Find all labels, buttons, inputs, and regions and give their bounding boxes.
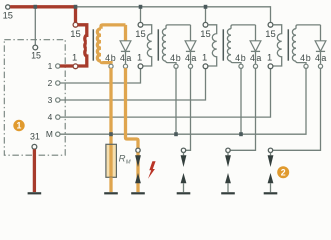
coil N3 high voltage diode xyxy=(255,25,257,41)
junction: M line / RM branch xyxy=(109,132,113,136)
svg-text:1: 1 xyxy=(17,121,22,131)
coil N2 high voltage diode xyxy=(190,25,192,41)
svg-text:4b: 4b xyxy=(300,53,311,63)
coil N3 secondary winding xyxy=(231,25,256,29)
wire: drop to coil 3 terminal 15 xyxy=(205,7,207,23)
spark gap 3 lower electrode arrow xyxy=(225,173,231,183)
junction: coil 3 4b / M line xyxy=(239,132,243,136)
svg-text:15: 15 xyxy=(135,28,145,39)
wire: spark gap 3 electrodes xyxy=(227,153,229,156)
svg-text:3: 3 xyxy=(48,95,53,105)
callout badge 1 xyxy=(13,120,24,131)
svg-text:4: 4 xyxy=(48,112,53,122)
ignition coil N3: terminal 15 xyxy=(203,22,208,27)
svg-text:1: 1 xyxy=(48,61,53,71)
wire: red drop into coil 1 terminal 15 xyxy=(74,6,77,23)
spark gap 2 lower electrode arrow xyxy=(181,173,187,183)
coil N4 primary winding xyxy=(273,25,282,66)
svg-text:1: 1 xyxy=(267,52,272,63)
wire: coil 1 terminal 4b to measuring line (orange) xyxy=(109,68,112,134)
ground: spark gap 2 xyxy=(177,192,191,194)
svg-text:4b: 4b xyxy=(105,53,116,63)
coil N4 high voltage diode xyxy=(320,25,322,41)
svg-text:1: 1 xyxy=(202,52,207,63)
spark gap 3 terminal xyxy=(226,148,230,152)
coil N2 primary winding xyxy=(143,25,152,66)
ignition coil N1: terminal 15 xyxy=(73,22,78,27)
ignition coil N4: terminal 15 xyxy=(268,22,273,27)
wire: terminal 31 to ground (red) xyxy=(33,149,36,192)
wire: terminal 15 supply rail (highlighted red) xyxy=(10,5,75,8)
svg-text:2: 2 xyxy=(48,78,53,88)
coil N3 core xyxy=(222,29,224,60)
coil N3 primary winding xyxy=(208,25,217,66)
spark gap 4 terminal xyxy=(268,148,272,152)
svg-text:2: 2 xyxy=(281,167,286,177)
wire: coil 3 terminal 4a to spark gap 3 xyxy=(230,68,255,150)
coil N1 core xyxy=(92,29,94,60)
spark gap 2 terminal xyxy=(181,148,185,152)
junction: coil 2 4b / M line xyxy=(174,132,178,136)
coil N4 core xyxy=(287,29,289,60)
spark gap 4 lower electrode arrow xyxy=(268,173,274,183)
svg-text:4a: 4a xyxy=(250,53,263,63)
spark gap 3 upper electrode arrow xyxy=(225,155,231,167)
spark gap 1 lower electrode arrow xyxy=(135,173,141,183)
wire: coil 1 terminal 4a to spark gap 1 (orange) xyxy=(126,68,139,148)
control unit J... (dash-dot enclosure) xyxy=(4,40,65,156)
svg-text:4a: 4a xyxy=(315,53,328,63)
svg-text:1: 1 xyxy=(137,52,142,63)
control unit terminal 15 xyxy=(33,45,38,50)
wire: spark gap 1 electrode (orange) xyxy=(136,153,139,193)
svg-text:4b: 4b xyxy=(170,53,181,63)
wire: spark gap 4 electrodes xyxy=(270,153,272,156)
coil N1 primary winding xyxy=(78,25,87,66)
svg-text:M: M xyxy=(46,129,53,139)
svg-text:M: M xyxy=(126,160,131,166)
callout badge 2 xyxy=(277,166,289,178)
wire: pin 4 to coil 4 terminal 1 xyxy=(60,69,271,117)
svg-text:15: 15 xyxy=(3,10,13,20)
spark gap 1 upper electrode arrow xyxy=(135,155,141,167)
wire: rail corner drop to coil 4 terminal 15 xyxy=(270,6,272,22)
wire: pin 1 to coil 1 terminal 1 (red) xyxy=(60,64,73,67)
svg-text:15: 15 xyxy=(70,28,80,39)
svg-text:1: 1 xyxy=(72,52,77,63)
wire: pin 3 to coil 3 terminal 1 xyxy=(60,69,206,100)
wire: drop to coil 2 terminal 15 xyxy=(140,7,142,23)
svg-text:15: 15 xyxy=(265,28,275,39)
junction: rail at coil 3 xyxy=(204,5,208,9)
wire: coil 2 terminal 4b drop xyxy=(175,68,177,134)
ground: spark gap 1 xyxy=(131,192,145,194)
ground: spark gap 4 xyxy=(264,192,278,194)
wire: pin 2 to coil 2 terminal 1 xyxy=(60,69,141,83)
svg-text:4a: 4a xyxy=(120,53,133,63)
wire: coil 3 terminal 4b drop xyxy=(240,68,242,134)
coil N2 secondary winding xyxy=(166,25,191,29)
svg-text:4a: 4a xyxy=(185,53,198,63)
wire: coil 2 terminal 4a to spark gap 2 xyxy=(186,68,191,150)
spark gap 2 upper electrode arrow xyxy=(181,155,187,167)
coil N2 core xyxy=(157,29,159,60)
spark flash symbol xyxy=(148,161,156,179)
svg-text:31: 31 xyxy=(30,132,40,142)
coil N1 high voltage diode xyxy=(124,25,127,41)
wire: drop to control unit terminal 15 xyxy=(34,7,36,45)
junction: rail / control unit drop xyxy=(34,5,38,9)
ground: resistor RM xyxy=(104,192,118,194)
spark gap 1 terminal xyxy=(136,148,140,152)
resistor RM xyxy=(106,144,117,177)
junction: rail at coil 1 xyxy=(74,5,78,9)
svg-text:15: 15 xyxy=(31,50,41,60)
ignition coil N2: terminal 15 xyxy=(138,22,143,27)
ground: spark gap 3 xyxy=(221,192,235,194)
terminal 15 battery supply (top left) xyxy=(6,5,10,9)
coil N4 secondary winding xyxy=(296,25,321,29)
wire: spark gap 2 electrodes xyxy=(183,153,185,156)
ground: terminal 31 xyxy=(28,192,42,194)
junction: rail at coil 2 xyxy=(139,5,143,9)
wire: supply rail to coils 2-4 xyxy=(76,6,271,8)
svg-text:15: 15 xyxy=(200,28,210,39)
wire: measuring line to resistor RM (orange) xyxy=(109,134,112,144)
coil N1 secondary winding xyxy=(101,25,126,29)
wire: pin M measurement line to coil 4b terminals xyxy=(60,68,306,134)
spark gap 4 upper electrode arrow xyxy=(268,155,274,167)
wire: coil 4 terminal 4a to spark gap 4 xyxy=(273,68,321,150)
svg-text:4b: 4b xyxy=(235,53,246,63)
svg-text:R: R xyxy=(119,154,126,165)
wire: resistor RM to ground (orange) xyxy=(109,177,112,192)
